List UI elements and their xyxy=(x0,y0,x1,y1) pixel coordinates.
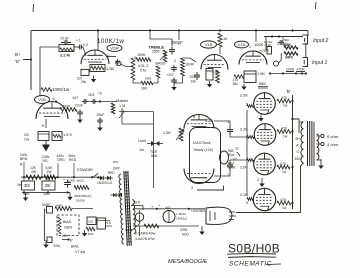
capacitor cathode box v1b xyxy=(206,69,213,81)
svg-text:L-5004: L-5004 xyxy=(176,212,186,216)
svg-text:100K 1w(2): 100K 1w(2) xyxy=(68,179,84,183)
svg-text:330K: 330K xyxy=(62,105,71,109)
svg-text:'C': 'C' xyxy=(235,146,240,151)
capacitor 30/450 b xyxy=(42,181,55,190)
svg-text:V1A: V1A xyxy=(238,42,246,47)
rectifier tube 5AR4 xyxy=(206,207,232,224)
svg-text:RED: RED xyxy=(108,171,115,175)
ground tube1 xyxy=(260,115,262,119)
svg-text:100: 100 xyxy=(88,220,93,224)
capacitor .1 in xyxy=(78,45,84,50)
svg-text:RED: RED xyxy=(69,158,77,162)
svg-text:25uF: 25uF xyxy=(97,113,105,117)
power tube V4 xyxy=(254,93,276,115)
wire bias E xyxy=(62,239,69,241)
power tube V7 xyxy=(253,188,275,210)
svg-text:+5: +5 xyxy=(98,92,102,96)
power tube V6 xyxy=(254,153,276,175)
svg-text:ORG: ORG xyxy=(57,158,65,162)
node tap 8ohm xyxy=(321,134,324,137)
svg-text:Heavy (12A): Heavy (12A) xyxy=(194,148,213,152)
svg-text:2.2K: 2.2K xyxy=(240,93,248,98)
jack input1 xyxy=(303,58,308,67)
svg-text:100K: 100K xyxy=(228,166,237,170)
svg-text:470: 470 xyxy=(280,162,286,166)
svg-text:12AX7/tunk: 12AX7/tunk xyxy=(193,141,211,145)
svg-text:+: + xyxy=(158,204,160,208)
potentiometer vol2 xyxy=(131,58,135,80)
svg-text:8?6: 8?6 xyxy=(113,160,118,164)
svg-text:250pF: 250pF xyxy=(171,40,183,45)
svg-text:MESA/BOOGIE: MESA/BOOGIE xyxy=(168,259,208,265)
wire input bus xyxy=(264,36,303,38)
svg-text:+: + xyxy=(44,209,46,213)
transformer PT core hatch xyxy=(124,173,131,242)
capacitor plus bars xyxy=(64,180,71,188)
capacitor 22/25v xyxy=(81,70,89,76)
wire stack out xyxy=(174,76,183,83)
svg-text:Master: Master xyxy=(116,98,129,103)
tail oval xyxy=(220,151,229,164)
ground 25uF xyxy=(99,124,101,128)
node grid circle xyxy=(273,61,278,66)
node junction oval xyxy=(116,61,121,65)
svg-text:5VA: 5VA xyxy=(151,154,158,158)
svg-text:7: 7 xyxy=(35,114,37,118)
svg-text:1N4(1u): 1N4(1u) xyxy=(176,217,187,221)
wire right rail top xyxy=(307,31,309,37)
wire v1b plate feed xyxy=(178,31,180,41)
svg-text:1w: 1w xyxy=(283,135,288,139)
svg-text:B+: B+ xyxy=(15,52,21,57)
resistor 1.5K v2b xyxy=(52,132,62,141)
svg-text:8 ohm: 8 ohm xyxy=(327,134,339,139)
resistor 390 v1a xyxy=(234,75,244,78)
svg-text:.1: .1 xyxy=(226,119,229,124)
transformer OT core xyxy=(307,121,309,166)
svg-text:.047: .047 xyxy=(72,96,79,100)
svg-text:25v: 25v xyxy=(81,80,87,84)
svg-text:GRN: GRN xyxy=(180,228,188,232)
svg-text:1.5K: 1.5K xyxy=(106,66,115,71)
svg-text:+: + xyxy=(63,178,65,182)
ground supply left xyxy=(25,193,27,198)
wire stack link xyxy=(153,78,158,83)
wire pi to grids top xyxy=(230,134,247,138)
ground v2b big xyxy=(45,141,47,145)
resistor bias series xyxy=(55,207,72,211)
diode pair mid xyxy=(113,193,116,197)
capacitor v1a cathode box xyxy=(244,71,256,83)
wire to vol pot xyxy=(120,64,133,67)
wire stack bottom xyxy=(133,80,141,83)
resistor bleeder xyxy=(74,186,89,190)
svg-text:1M: 1M xyxy=(281,42,286,46)
svg-text:1.5 K: 1.5 K xyxy=(63,132,72,137)
resistor 34K b xyxy=(284,52,298,55)
svg-text:1.5K: 1.5K xyxy=(257,71,265,76)
svg-text:1K/1w: 1K/1w xyxy=(264,40,273,44)
svg-text:V.2: V.2 xyxy=(83,43,88,47)
triode V2A bottom dome xyxy=(184,169,214,184)
svg-text:3w: 3w xyxy=(17,183,22,187)
svg-text:22uF: 22uF xyxy=(75,104,83,108)
transformer PT core xyxy=(124,171,131,246)
wire prim top xyxy=(299,121,304,123)
triode V2A top dome xyxy=(184,115,214,129)
svg-text:1: 1 xyxy=(249,45,251,49)
svg-text:250K: 250K xyxy=(152,50,161,54)
svg-text:YEL: YEL xyxy=(42,159,49,163)
wire tube3 to tube4 xyxy=(261,178,263,184)
triode V1A dome xyxy=(239,51,267,65)
svg-text:BiAE: BiAE xyxy=(71,245,79,249)
wire V2 grid lead xyxy=(83,47,86,56)
resistor small vert xyxy=(267,47,272,55)
wire grid feed vertical xyxy=(39,47,41,95)
svg-text:1m: 1m xyxy=(139,148,144,152)
svg-text:470: 470 xyxy=(281,127,287,131)
resistor 470 screen2 xyxy=(277,130,291,134)
wire mains a xyxy=(96,220,110,222)
node top-left tick xyxy=(32,4,35,12)
wire v1a plate feed xyxy=(255,31,257,43)
resistor rect series xyxy=(144,224,159,228)
svg-text:.003: .003 xyxy=(88,93,95,97)
resistor 34K a xyxy=(284,46,298,49)
wire V1 plate feed xyxy=(97,31,99,51)
wire grid stub2 xyxy=(247,136,254,139)
wire 250p top xyxy=(150,31,172,40)
resistor 1.5K cathode xyxy=(90,65,105,72)
svg-text:30M/450(2x): 30M/450(2x) xyxy=(74,194,91,198)
svg-text:2W: 2W xyxy=(47,170,53,174)
resistor right vert xyxy=(111,103,115,114)
svg-text:1.5K: 1.5K xyxy=(163,130,171,135)
svg-text:100K: 100K xyxy=(286,68,295,72)
wire left border rail xyxy=(30,31,32,91)
svg-text:16v: 16v xyxy=(191,80,197,84)
svg-text:34PC: 34PC xyxy=(285,56,294,60)
svg-text:3-6A?8 6?w: 3-6A?8 6?w xyxy=(135,237,155,241)
node tap 4ohm xyxy=(321,142,324,145)
svg-text:NO: NO xyxy=(166,206,171,210)
wire rc to cap xyxy=(74,46,78,48)
svg-text:BiAS: BiAS xyxy=(63,220,72,224)
svg-text:VOL 2: VOL 2 xyxy=(138,64,148,68)
resistor 470 screen1 xyxy=(277,99,291,103)
ground bias left xyxy=(45,240,47,245)
svg-text:5 M: 5 M xyxy=(140,69,146,73)
svg-text:Input 2: Input 2 xyxy=(313,38,329,44)
wire bias left xyxy=(43,209,45,242)
triode V2B dome xyxy=(36,102,68,120)
wire supply gnd bus xyxy=(22,191,70,193)
svg-text:Blue: Blue xyxy=(228,153,235,157)
wire grids left rail xyxy=(246,110,248,196)
svg-text:2-5AR8 40w: 2-5AR8 40w xyxy=(135,232,156,236)
wire screen rail xyxy=(292,95,294,209)
varistor VDR oval xyxy=(107,45,122,52)
wire master tap xyxy=(119,111,154,113)
wire net bottom row xyxy=(270,73,306,75)
svg-text:56K: 56K xyxy=(259,81,266,86)
svg-text:1w: 1w xyxy=(282,206,287,210)
svg-text:100K/1w: 100K/1w xyxy=(97,38,124,45)
svg-text:'E': 'E' xyxy=(69,238,73,243)
tube box 12AX7 xyxy=(190,128,221,183)
wire input1 drop xyxy=(265,37,267,50)
svg-text:470K: 470K xyxy=(297,68,306,72)
svg-text:8: 8 xyxy=(42,124,44,128)
resistor 100 box xyxy=(87,217,96,225)
wire V2 plate out xyxy=(107,56,116,58)
wire mains b xyxy=(106,225,113,227)
svg-text:Limit: Limit xyxy=(138,138,147,143)
resistor supply a xyxy=(26,175,41,179)
wire v2b cathode xyxy=(45,119,47,128)
svg-text:mid: mid xyxy=(145,77,151,81)
ground v1b cathode xyxy=(209,81,211,85)
svg-text:51000: 51000 xyxy=(76,199,85,203)
svg-text:V1B: V1B xyxy=(205,42,213,47)
lamp NO xyxy=(163,211,175,223)
wire bias top xyxy=(72,208,93,210)
bias gen box xyxy=(57,215,79,236)
switch mains box xyxy=(97,218,106,229)
wire PT blk xyxy=(131,205,143,207)
capacitor 10nF xyxy=(61,40,71,45)
wire jack link xyxy=(305,43,307,58)
svg-text:GRY: GRY xyxy=(113,167,121,171)
ground rectifier xyxy=(201,226,203,232)
wire master out xyxy=(122,121,154,124)
svg-text:2.2 M: 2.2 M xyxy=(60,53,70,58)
resistor 1.5K v1b xyxy=(216,70,220,83)
svg-text:B+: B+ xyxy=(296,137,301,141)
wire down to pi xyxy=(153,112,155,189)
svg-text:-V7 adj: -V7 adj xyxy=(74,250,85,254)
capacitor bias in xyxy=(47,207,53,214)
power tube V5 xyxy=(254,124,276,146)
resistor 470 screen3 xyxy=(277,165,290,169)
wire B+ return rail xyxy=(236,163,304,213)
jack input2 xyxy=(303,35,308,44)
capacitor 30/450 a xyxy=(22,181,35,190)
svg-text:30/: 30/ xyxy=(24,183,31,188)
svg-text:5OO: 5OO xyxy=(182,233,189,237)
wire grid stub1 xyxy=(247,105,254,108)
resistor 100K mid xyxy=(181,58,185,76)
triode V1B oval xyxy=(201,41,217,48)
svg-text:5%s: 5%s xyxy=(54,244,61,248)
node top-right tick xyxy=(315,2,318,9)
svg-text:GEN: GEN xyxy=(64,226,72,230)
wire grid feed top xyxy=(40,46,59,48)
wire v1b grid xyxy=(183,58,197,62)
svg-text:BLK: BLK xyxy=(134,201,141,205)
svg-text:+100/35O: +100/35O xyxy=(191,209,206,213)
wire supply bus xyxy=(21,176,99,178)
diode limiter pair xyxy=(151,141,160,146)
triode V1A oval xyxy=(235,41,249,48)
svg-text:STANDBY: STANDBY xyxy=(77,168,94,172)
wire v1b plate out xyxy=(219,47,221,54)
svg-text:100K/1w: 100K/1w xyxy=(52,87,70,92)
transformer PT left winding xyxy=(119,174,124,244)
wire grid stub3 xyxy=(247,159,254,162)
svg-text:10v: 10v xyxy=(24,138,30,142)
resistor 100K slope xyxy=(136,58,151,62)
resistor 330K xyxy=(60,108,77,112)
svg-text:1w: 1w xyxy=(282,170,287,174)
svg-text:10K: 10K xyxy=(62,234,69,238)
resistor supply b xyxy=(44,175,56,179)
svg-text:5: 5 xyxy=(246,201,248,205)
wire b+ staircase xyxy=(293,119,300,133)
wire rect lower xyxy=(133,225,199,227)
svg-text:VDR: VDR xyxy=(110,45,119,50)
svg-text:O: O xyxy=(297,150,300,154)
svg-text:3: 3 xyxy=(257,178,259,182)
ground 22uF xyxy=(79,116,81,120)
svg-text:WHT: WHT xyxy=(125,229,133,233)
svg-text:6: 6 xyxy=(53,97,55,101)
svg-text:30/: 30/ xyxy=(45,183,52,188)
svg-text:3: 3 xyxy=(191,186,193,190)
svg-text:1 M: 1 M xyxy=(119,104,125,108)
svg-text:470: 470 xyxy=(281,96,287,100)
svg-text:'B': 'B' xyxy=(286,89,291,94)
svg-text:6.6: 6.6 xyxy=(107,221,112,225)
wire pi bottom out xyxy=(214,169,230,176)
svg-text:1w: 1w xyxy=(283,104,288,108)
svg-text:+.1: +.1 xyxy=(76,39,81,43)
svg-text:BASS: BASS xyxy=(156,62,166,66)
svg-text:1.5K: 1.5K xyxy=(212,70,220,74)
triode V2 dome xyxy=(81,50,109,64)
wire second stage bus xyxy=(88,101,117,103)
resistor 2.2M xyxy=(59,45,74,52)
svg-text:10K: 10K xyxy=(141,87,148,91)
svg-text:.047: .047 xyxy=(167,73,174,77)
capacitor bias out xyxy=(47,237,52,243)
resistor 1K drop xyxy=(218,33,222,47)
ground mains xyxy=(84,230,86,234)
resistor 470 screen4 xyxy=(277,201,291,205)
svg-text:1N4003-G: 1N4003-G xyxy=(97,181,113,185)
wire grid stub4 xyxy=(247,198,253,201)
svg-text:2.2K: 2.2K xyxy=(240,166,248,170)
transformer OT primary xyxy=(301,122,304,163)
ground stack xyxy=(173,84,175,88)
svg-text:.1: .1 xyxy=(173,59,176,63)
wire pi top out xyxy=(214,121,230,128)
diode 1N4003 top pair xyxy=(100,176,103,180)
svg-text:100K: 100K xyxy=(137,53,146,57)
svg-text:+VDR: +VDR xyxy=(259,49,269,53)
svg-text:10 nF: 10 nF xyxy=(60,37,69,41)
pilot lamp xyxy=(135,213,143,221)
triode V1B dome xyxy=(201,55,228,70)
wire B+ top rail xyxy=(31,30,308,32)
wire HV to rectifier xyxy=(133,208,205,210)
svg-text:BRN: BRN xyxy=(20,157,28,161)
svg-text:100K: 100K xyxy=(185,62,194,67)
svg-text:A': A' xyxy=(296,144,299,148)
svg-text:SCHEMATIC: SCHEMATIC xyxy=(229,261,272,268)
ground OT secondary xyxy=(317,160,322,161)
svg-text:Input 1: Input 1 xyxy=(312,60,328,66)
wire pi to grids bottom xyxy=(230,160,247,163)
svg-text:B2A: B2A xyxy=(88,232,94,236)
svg-text:4 ohm: 4 ohm xyxy=(327,142,339,147)
wire PI pin3 out xyxy=(197,186,224,191)
svg-text:1K: 1K xyxy=(223,36,228,41)
ground supply right xyxy=(69,192,71,197)
triode V2B oval xyxy=(35,96,50,104)
transformer PT right winding xyxy=(132,200,136,234)
wire PT wht xyxy=(131,224,140,231)
capacitor plate bypass xyxy=(115,59,120,65)
ground V1 cathode xyxy=(93,76,95,80)
svg-text:V1B: V1B xyxy=(38,97,46,102)
ground v1a cathode xyxy=(243,84,245,87)
svg-text:2W: 2W xyxy=(31,170,37,174)
svg-text:470: 470 xyxy=(280,198,286,202)
svg-text:'D': 'D' xyxy=(15,59,20,64)
wire plate rail to stack xyxy=(134,57,136,60)
transformer OT secondary xyxy=(317,134,319,160)
svg-text:38o: 38o xyxy=(233,82,239,86)
resistor mains zz xyxy=(86,227,95,231)
